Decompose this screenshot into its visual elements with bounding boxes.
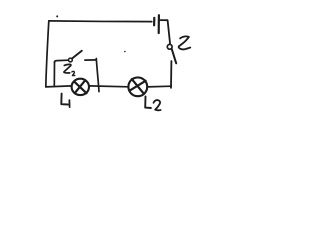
label S2 bbox=[64, 64, 71, 73]
wire: bottom middle (lamp L1 to lamp L2) bbox=[89, 85, 128, 88]
wire left side bbox=[46, 21, 49, 87]
switch S blade (open) bbox=[172, 49, 177, 64]
wire: shunt branch left vertical bbox=[53, 62, 55, 86]
ink speck near top-left bbox=[56, 15, 58, 17]
wire: shunt branch right vertical bbox=[96, 59, 99, 92]
wire: right side below switch bbox=[170, 61, 172, 88]
label L1 bbox=[61, 94, 68, 105]
ink speck mid circuit bbox=[124, 51, 126, 53]
wire: shunt branch top-left to S2 pivot bbox=[54, 60, 68, 62]
switch S pivot bbox=[167, 44, 172, 49]
lamp L1 cross bbox=[75, 80, 87, 93]
switch S2 blade (open) bbox=[72, 51, 82, 59]
wire: bottom left (corner to lamp L1) bbox=[46, 86, 72, 87]
wire top: battery negative to top-left corner bbox=[49, 20, 152, 23]
wire: shunt branch top-right bbox=[85, 59, 96, 61]
lamp L2 bbox=[128, 77, 147, 96]
battery B1 short plate bbox=[153, 18, 155, 25]
switch S2 pivot bbox=[69, 58, 73, 62]
battery B1 long plate bbox=[158, 15, 160, 33]
label L2 bbox=[145, 96, 151, 108]
lamp L1 bbox=[72, 79, 89, 95]
wire: battery positive to switch S bbox=[160, 20, 170, 44]
wire: bottom right (corner to lamp L2) bbox=[147, 85, 171, 88]
lamp L2 cross bbox=[130, 79, 146, 94]
label S bbox=[179, 36, 191, 49]
